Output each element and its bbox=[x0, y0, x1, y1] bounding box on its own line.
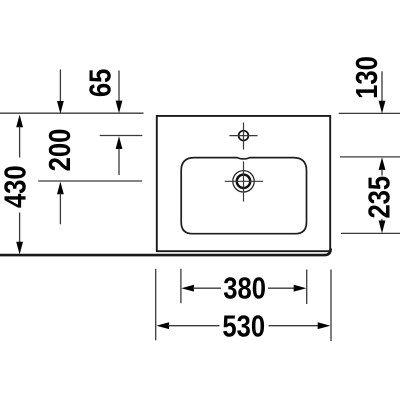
svg-text:200: 200 bbox=[43, 129, 77, 172]
svg-text:65: 65 bbox=[83, 69, 117, 97]
svg-text:530: 530 bbox=[222, 310, 265, 344]
svg-text:380: 380 bbox=[223, 272, 266, 306]
svg-text:430: 430 bbox=[0, 165, 32, 208]
svg-text:130: 130 bbox=[350, 56, 384, 99]
svg-text:235: 235 bbox=[363, 176, 397, 219]
